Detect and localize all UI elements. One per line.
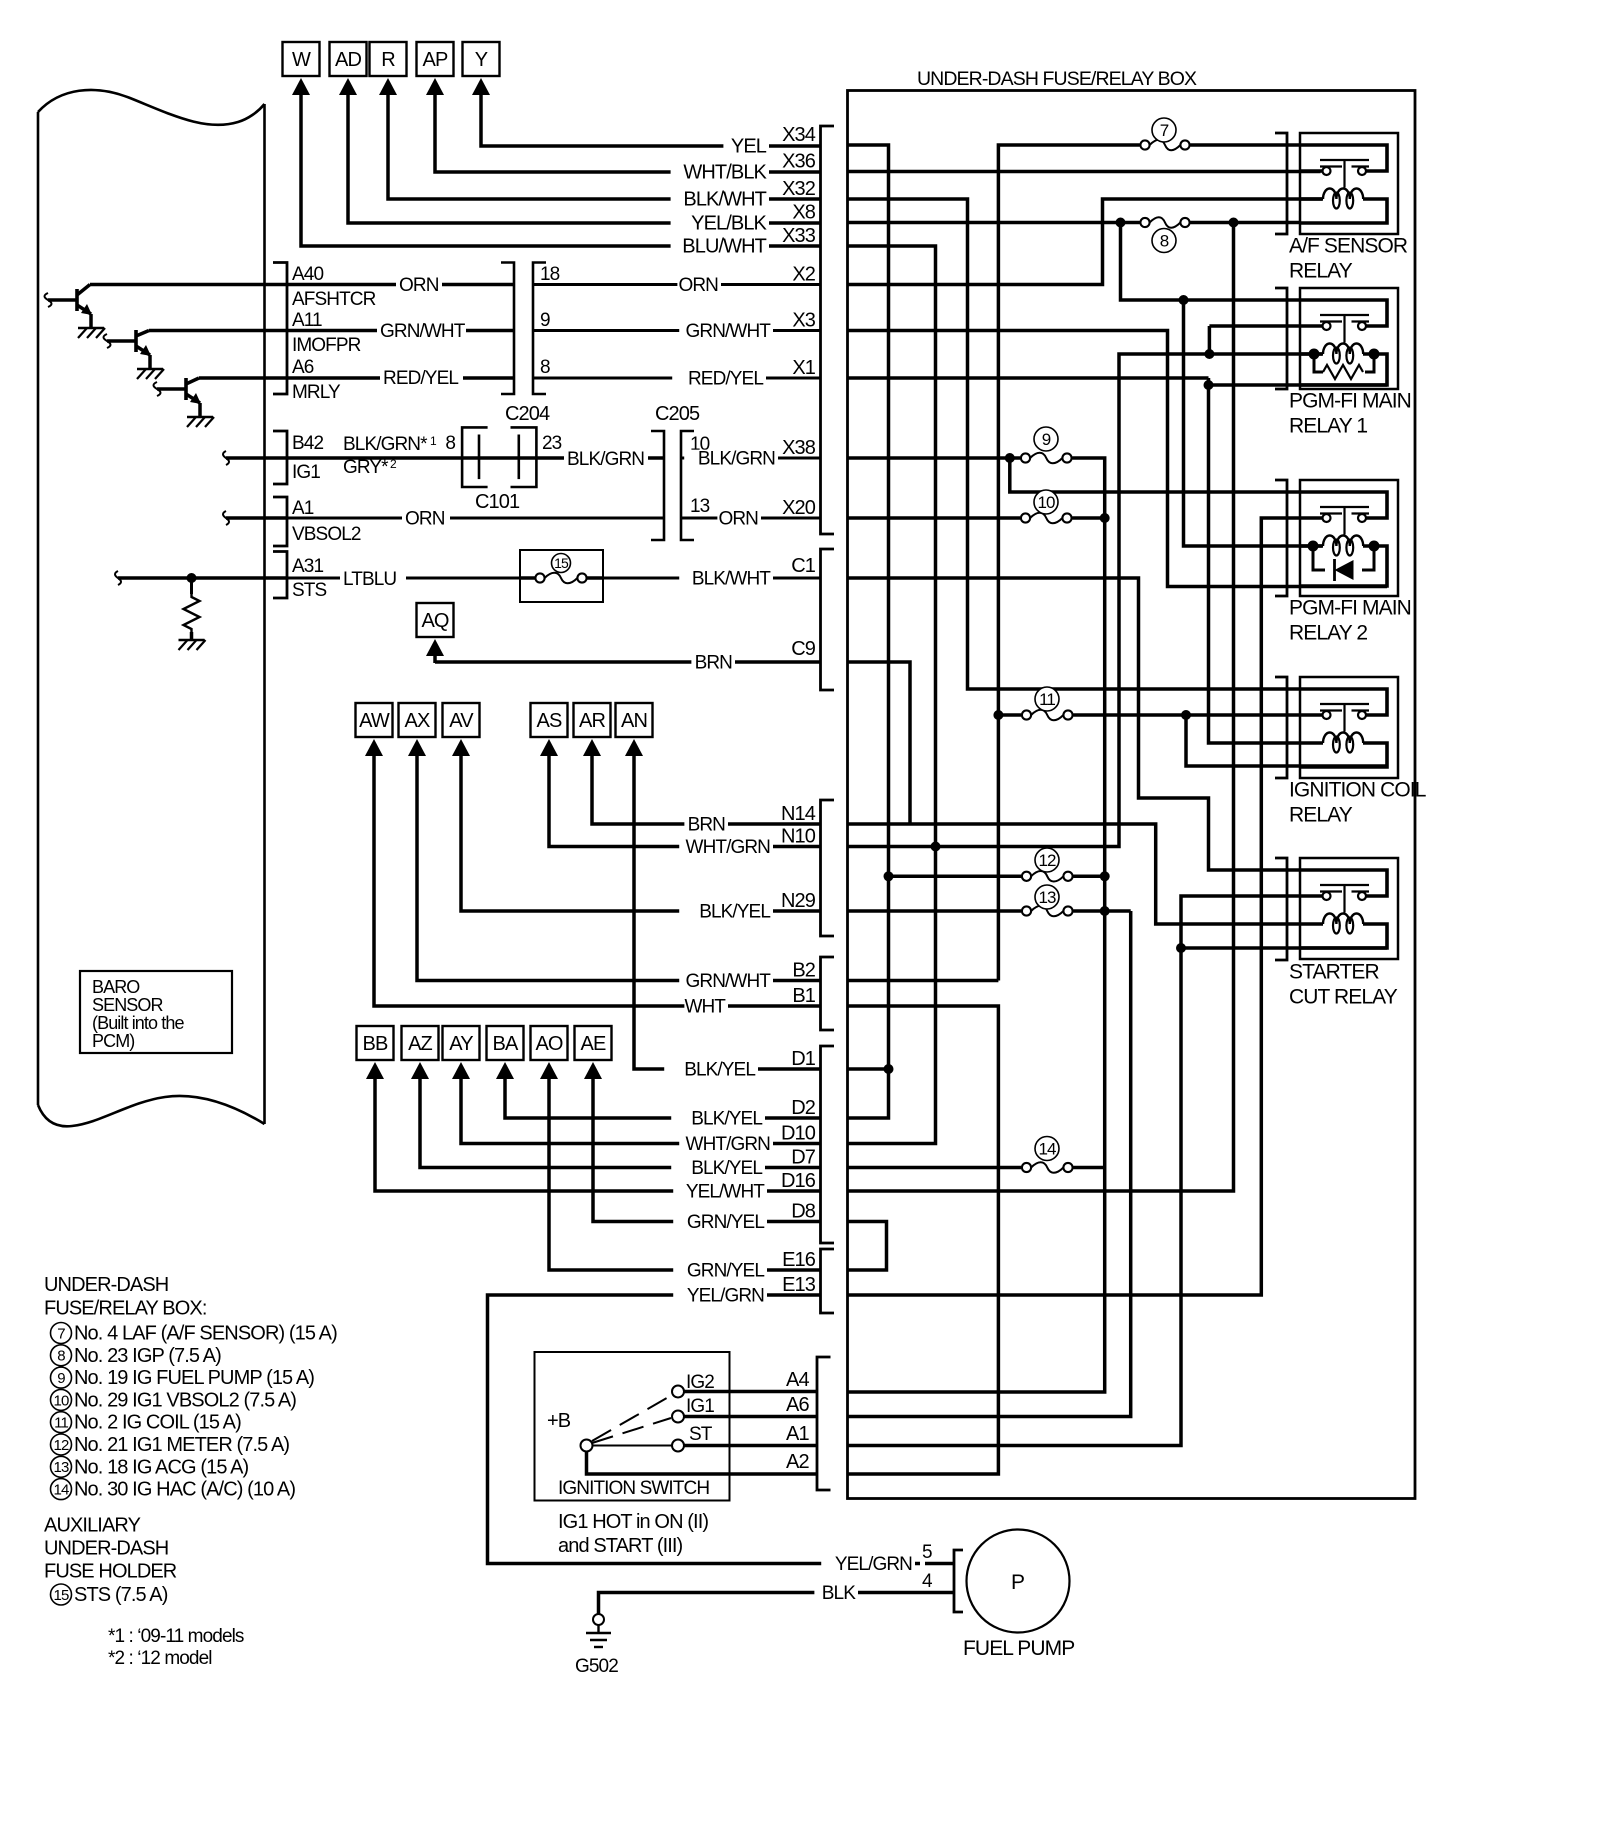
- wire label BLU/WHT: [671, 237, 769, 257]
- wire X2/ORN raised to A/F relay coil: [848, 199, 1323, 285]
- svg-text:D1: D1: [791, 1048, 816, 1070]
- svg-text:ORN: ORN: [399, 275, 439, 296]
- svg-text:D8: D8: [791, 1201, 816, 1223]
- wire RED/YEL A6 label: [380, 369, 463, 388]
- svg-text:BLU/WHT: BLU/WHT: [682, 236, 766, 258]
- wire ORN C205 to X20: [681, 517, 821, 520]
- destination box AY with arrow: [443, 1026, 480, 1060]
- svg-text:VBSOL2: VBSOL2: [292, 524, 361, 545]
- svg-text:N10: N10: [781, 826, 816, 848]
- svg-text:X38: X38: [782, 437, 816, 459]
- svg-text:AX: AX: [405, 710, 430, 732]
- svg-text:ST: ST: [689, 1424, 713, 1445]
- node on X8 wire: [1116, 218, 1126, 228]
- connector C205: [651, 431, 664, 540]
- wire N10 riser to relay1 coil: [848, 354, 1323, 847]
- wire LTBLU A31 to fuse holder: [287, 577, 520, 580]
- wire GRN/WHT A11 label: [377, 322, 466, 341]
- wire starter cut contact/coil from A1: [848, 896, 1301, 1446]
- node X1 relay1 return junction: [1204, 380, 1214, 390]
- node junction on A31 wire: [187, 573, 197, 583]
- legend fuse 12: [51, 1434, 72, 1455]
- svg-text:AR: AR: [579, 710, 605, 732]
- destination box AZ with arrow: [402, 1026, 439, 1060]
- svg-text:AP: AP: [423, 49, 448, 71]
- destination box AW with arrow: [356, 703, 393, 737]
- svg-text:AV: AV: [449, 710, 474, 732]
- svg-text:ORN: ORN: [405, 509, 445, 530]
- svg-text:IG1: IG1: [686, 1396, 714, 1417]
- svg-text:BLK: BLK: [822, 1583, 856, 1604]
- svg-text:C101: C101: [475, 491, 520, 513]
- wire label YEL/BLK: [671, 214, 769, 234]
- svg-text:BLK/YEL: BLK/YEL: [699, 902, 770, 923]
- wire label BLK/YEL at y=1118: [671, 1110, 765, 1129]
- svg-text:No. 18 IG ACG (15 A): No. 18 IG ACG (15 A): [74, 1456, 249, 1478]
- wire into B42: [223, 451, 229, 465]
- wire label BLK/YEL at y=911: [679, 903, 773, 922]
- svg-text:12: 12: [1038, 851, 1056, 870]
- svg-text:X36: X36: [782, 151, 816, 173]
- svg-text:A31: A31: [292, 556, 323, 577]
- connector C101: [462, 427, 488, 487]
- svg-text:BLK/YEL: BLK/YEL: [691, 1158, 762, 1179]
- svg-text:STS: STS: [292, 580, 326, 601]
- destination box AE with arrow: [575, 1026, 612, 1060]
- svg-text:A6: A6: [292, 357, 314, 378]
- svg-text:WHT: WHT: [684, 997, 726, 1018]
- svg-text:X20: X20: [782, 497, 816, 519]
- svg-text:A1: A1: [292, 498, 314, 519]
- under-dash fuse/relay box outline: [848, 91, 1416, 1499]
- node fuse8 right junction: [1229, 218, 1239, 228]
- svg-text:15: 15: [54, 1587, 69, 1604]
- wire D16 to fuse8 junction riser: [848, 223, 1234, 1192]
- wire ORN A1 to C205: [287, 517, 664, 520]
- svg-text:E16: E16: [782, 1249, 816, 1271]
- svg-text:A6: A6: [786, 1394, 809, 1416]
- wire fuse13 out: [1074, 909, 1131, 913]
- svg-text:*2 : ‘12 model: *2 : ‘12 model: [108, 1648, 212, 1669]
- svg-text:E13: E13: [782, 1274, 816, 1296]
- fuse 12 (No.21 IG1 METER): [1022, 872, 1031, 881]
- svg-text:A/F SENSOR: A/F SENSOR: [1289, 235, 1408, 258]
- wire fuse 11 feed: [998, 713, 1021, 717]
- wire from AP riser to pin row y=172: [435, 95, 821, 172]
- ground under resistor: [179, 639, 205, 642]
- PCM connector bracket A40/A11/A6: [273, 263, 287, 395]
- svg-text:N29: N29: [781, 890, 816, 912]
- node relay1 coil-left junction: [1204, 349, 1214, 359]
- wire from Y riser to pin row y=146: [481, 95, 821, 146]
- wire label BLK/YEL at y=1167.5: [671, 1159, 765, 1178]
- svg-text:14: 14: [1038, 1140, 1056, 1159]
- wire label WHT/GRN at y=1143.5: [679, 1135, 773, 1154]
- dashed selector to IG1: [592, 1418, 671, 1443]
- transistor Q3 (MRLY driver): [154, 382, 161, 396]
- contact IG2: [672, 1386, 684, 1398]
- wire X8 fuse8 to A/F coil return: [1191, 221, 1301, 225]
- wire ORN A40 to C204 label: [396, 276, 442, 295]
- wire branch to relay2 coil: [1184, 300, 1323, 546]
- wire label BLK/WHT: [671, 190, 769, 210]
- svg-text:G502: G502: [575, 1656, 618, 1677]
- svg-text:BRN: BRN: [695, 653, 733, 674]
- svg-text:8: 8: [445, 433, 455, 454]
- svg-text:WHT/BLK: WHT/BLK: [683, 162, 767, 184]
- svg-text:IMOFPR: IMOFPR: [292, 335, 361, 356]
- wire D7 to fuse 14: [848, 1166, 1022, 1170]
- node fuse11 output junction: [1181, 710, 1191, 720]
- svg-text:WHT/GRN: WHT/GRN: [686, 1134, 771, 1155]
- svg-text:RELAY: RELAY: [1289, 804, 1353, 827]
- svg-text:+B: +B: [547, 1410, 571, 1432]
- svg-text:BRN: BRN: [688, 815, 726, 836]
- svg-text:GRN/WHT: GRN/WHT: [380, 321, 466, 342]
- node X38 branch: [1005, 453, 1015, 463]
- transistor Q1 (AFSHTCR driver): [45, 293, 52, 307]
- svg-text:B2: B2: [792, 960, 815, 982]
- svg-text:AE: AE: [581, 1033, 606, 1055]
- PCM module outline (torn-edge block): [37, 112, 40, 1105]
- wire from AD riser to pin row y=223: [348, 95, 821, 223]
- wire relay1 contact top from X8: [1121, 223, 1301, 301]
- svg-text:YEL/GRN: YEL/GRN: [687, 1286, 764, 1307]
- wire relay1 return drop to ignition coil relay coil: [1209, 385, 1301, 743]
- relay PGM-FI MAIN RELAY 1: [1300, 288, 1398, 389]
- wire fuse10 out: [1073, 516, 1105, 520]
- svg-text:PGM-FI MAIN: PGM-FI MAIN: [1289, 390, 1411, 413]
- wire label BLK (fuel pump 4): [814, 1584, 858, 1603]
- svg-text:YEL/GRN: YEL/GRN: [835, 1554, 912, 1575]
- wire C9 to N14 junction: [848, 662, 911, 824]
- destination box R with arrow: [370, 42, 407, 76]
- wire ignition coil relay coil return: [1186, 715, 1387, 766]
- svg-text:RED/YEL: RED/YEL: [688, 369, 763, 390]
- node fuse13 out: [1100, 906, 1110, 916]
- wire A6 segment: [287, 376, 514, 380]
- resistor R1 (STS pulldown): [190, 578, 193, 594]
- legend fuse 8: [51, 1345, 72, 1366]
- svg-text:BLK/WHT: BLK/WHT: [692, 569, 771, 590]
- svg-text:STS (7.5 A): STS (7.5 A): [74, 1584, 168, 1606]
- node N10/X33 junction: [931, 842, 941, 852]
- wire B2 stub: [848, 979, 999, 983]
- svg-text:*1 : ‘09-11 models: *1 : ‘09-11 models: [108, 1626, 244, 1647]
- legend fuse 9: [51, 1367, 72, 1388]
- ground G502 symbol: [593, 1614, 604, 1625]
- svg-text:9: 9: [540, 310, 550, 331]
- svg-text:IG1 HOT in ON (II): IG1 HOT in ON (II): [558, 1511, 708, 1533]
- svg-text:12: 12: [54, 1437, 69, 1454]
- wire E13 YEL/GRN outside loop to fuel pump: [488, 1295, 921, 1564]
- svg-text:BA: BA: [493, 1033, 519, 1055]
- transistor Q2 (IMOFPR driver): [104, 334, 111, 348]
- svg-text:X1: X1: [792, 357, 815, 379]
- svg-text:No. 23 IGP (7.5 A): No. 23 IGP (7.5 A): [74, 1345, 221, 1367]
- destination box AV with arrow: [443, 703, 480, 737]
- svg-text:AO: AO: [535, 1033, 562, 1055]
- destination box W with arrow: [283, 42, 320, 76]
- svg-text:B42: B42: [292, 433, 323, 454]
- fuse 7 (No.4 LAF): [1140, 140, 1149, 149]
- svg-text:X33: X33: [782, 225, 816, 247]
- wire X34/YEL vertical drop: [848, 145, 889, 1118]
- wire label WHT at y=1006: [684, 998, 728, 1017]
- wire IG2 to A4: [684, 1390, 817, 1394]
- svg-text:No. 30 IG HAC (A/C) (10 A): No. 30 IG HAC (A/C) (10 A): [74, 1479, 295, 1501]
- wire riser AV to N29: [461, 756, 821, 911]
- fuse box connector bracket B2-B1: [821, 957, 835, 1030]
- wire IG1-VBSOL2 vertical: [848, 518, 1105, 1392]
- svg-text:AN: AN: [621, 710, 647, 732]
- wire BLK/GRN C205 to X38: [681, 457, 821, 460]
- wire GRN/WHT C204 to X3: [533, 329, 821, 332]
- svg-text:UNDER-DASH: UNDER-DASH: [44, 1274, 168, 1296]
- svg-text:R: R: [381, 49, 395, 71]
- fuel pump bracket: [954, 1550, 963, 1612]
- svg-text:UNDER-DASH: UNDER-DASH: [44, 1538, 168, 1560]
- svg-text:13: 13: [690, 496, 710, 517]
- wire N14 to starter cut coil: [848, 824, 1301, 924]
- contact ST: [672, 1440, 684, 1452]
- wire riser AN to D1: [634, 756, 821, 1069]
- svg-text:No. 19 IG FUEL PUMP (15 A): No. 19 IG FUEL PUMP (15 A): [74, 1367, 314, 1389]
- node D1 junction: [884, 1064, 894, 1074]
- svg-text:AUXILIARY: AUXILIARY: [44, 1515, 141, 1537]
- svg-text:A40: A40: [292, 264, 323, 285]
- wire A40-ORN segment: [287, 283, 514, 287]
- svg-text:GRN/YEL: GRN/YEL: [687, 1261, 764, 1282]
- destination box AS with arrow: [531, 703, 568, 737]
- svg-text:GRN/YEL: GRN/YEL: [687, 1212, 764, 1233]
- wire X20 to fuse 10: [848, 516, 1021, 520]
- svg-text:BLK/GRN: BLK/GRN: [698, 449, 775, 470]
- legend fuse 10: [51, 1389, 72, 1410]
- wire fuse9 out to X20 junction: [1073, 458, 1105, 518]
- svg-text:RELAY 1: RELAY 1: [1289, 415, 1367, 438]
- svg-text:4: 4: [922, 1571, 933, 1592]
- svg-text:FUSE/RELAY BOX:: FUSE/RELAY BOX:: [44, 1298, 207, 1320]
- wire riser AY to D10: [461, 1079, 821, 1144]
- fuse box connector bracket N14-N29: [821, 800, 835, 936]
- wire riser AS to N10: [549, 756, 821, 847]
- destination box AN with arrow: [616, 703, 653, 737]
- svg-text:AY: AY: [449, 1033, 473, 1055]
- wire fuse14 out to A4 line: [1074, 1166, 1105, 1170]
- svg-text:No. 2 IG COIL (15 A): No. 2 IG COIL (15 A): [74, 1412, 241, 1434]
- wire riser AR to N14: [592, 756, 821, 824]
- svg-text:5: 5: [922, 1542, 932, 1563]
- wire from R riser to pin row y=199: [388, 95, 821, 199]
- svg-text:D2: D2: [791, 1097, 816, 1119]
- destination box Y with arrow: [463, 42, 500, 76]
- svg-text:13: 13: [1038, 888, 1056, 907]
- fuse 13 (No.18 IG ACG): [1022, 906, 1031, 915]
- fuel pump motor circle: [967, 1530, 1070, 1633]
- relay IGNITION COIL RELAY: [1300, 677, 1398, 778]
- wire label GRN/YEL at y=1270: [673, 1262, 767, 1281]
- wire X1 corner to relay1 coil return: [1209, 378, 1388, 385]
- svg-text:23: 23: [542, 433, 562, 454]
- svg-text:STARTER: STARTER: [1289, 961, 1380, 984]
- connector C204: [501, 263, 514, 395]
- wire ORN C204 to X2: [533, 283, 821, 286]
- fuse 11 (No.2 IG COIL): [1022, 710, 1031, 719]
- wire label BRN at y=824: [684, 816, 728, 835]
- wire label YEL/GRN at y=1295: [673, 1287, 767, 1306]
- svg-text:PGM-FI MAIN: PGM-FI MAIN: [1289, 597, 1411, 620]
- wire X38 to fuse 9: [848, 456, 1021, 460]
- svg-text:18: 18: [540, 264, 560, 285]
- wire X8 to fuse 8: [848, 221, 1140, 225]
- wire label YEL: [723, 137, 769, 157]
- legend fuse 14: [51, 1479, 72, 1500]
- svg-text:X8: X8: [792, 202, 815, 224]
- ground G502 riser and BLK wire: [599, 1593, 955, 1618]
- wire X33 drop to N10/D10: [848, 246, 936, 1144]
- destination box BA with arrow: [487, 1026, 524, 1060]
- PCM bracket A31/STS: [273, 552, 287, 599]
- svg-text:YEL: YEL: [731, 136, 767, 158]
- svg-text:Y: Y: [475, 49, 488, 71]
- svg-text:No. 4 LAF (A/F SENSOR) (15 A): No. 4 LAF (A/F SENSOR) (15 A): [74, 1323, 337, 1345]
- svg-text:AW: AW: [359, 710, 390, 732]
- svg-text:8: 8: [540, 357, 550, 378]
- wire label WHT/GRN at y=846.5: [679, 838, 773, 857]
- svg-text:C9: C9: [791, 638, 816, 660]
- wire riser BB to D16: [375, 1079, 821, 1191]
- svg-text:ORN: ORN: [718, 509, 758, 530]
- destination box BB with arrow: [357, 1026, 394, 1060]
- svg-text:No. 29 IG1 VBSOL2 (7.5 A): No. 29 IG1 VBSOL2 (7.5 A): [74, 1389, 296, 1411]
- svg-text:15: 15: [554, 555, 569, 571]
- svg-text:10: 10: [1037, 493, 1055, 512]
- wire label WHT/BLK: [671, 163, 769, 183]
- wire X1 to PGM-FI relay1: [848, 376, 1209, 380]
- wire riser BA to D2: [505, 1079, 821, 1118]
- fuse 15 symbol: [552, 554, 571, 573]
- legend fuse 13: [51, 1456, 72, 1477]
- fuse 8 (No.23 IGP): [1140, 218, 1149, 227]
- destination box AO with arrow: [531, 1026, 568, 1060]
- wire BRN from AQ to C9: [435, 660, 821, 664]
- svg-text:ORN: ORN: [678, 275, 718, 296]
- wire riser AO to E16: [549, 1079, 821, 1270]
- wire X3 to PGM-FI relay2 coil return: [848, 331, 1388, 587]
- svg-text:X2: X2: [792, 264, 815, 286]
- wire label GRN/YEL at y=1221.5: [673, 1213, 767, 1232]
- svg-text:8: 8: [1160, 232, 1169, 251]
- svg-text:10: 10: [54, 1392, 69, 1409]
- wire fuse7 to A/F relay contact top: [1191, 143, 1301, 147]
- svg-text:(Built into the: (Built into the: [92, 1013, 184, 1033]
- node fuse12 feed: [884, 871, 894, 881]
- svg-text:RED/YEL: RED/YEL: [383, 368, 458, 389]
- fuse box connector bracket D1-D8: [821, 1046, 835, 1243]
- wire B42 to C101: [287, 456, 664, 460]
- svg-text:W: W: [292, 49, 311, 71]
- svg-text:RELAY 2: RELAY 2: [1289, 622, 1367, 645]
- svg-text:AFSHTCR: AFSHTCR: [292, 289, 376, 310]
- svg-text:YEL/WHT: YEL/WHT: [686, 1182, 765, 1203]
- ignition switch pole: [581, 1440, 593, 1452]
- wire X38 branch to relay2 contact top: [1010, 458, 1300, 492]
- contact IG1: [672, 1411, 684, 1423]
- PCM bracket B42/IG1: [273, 431, 287, 484]
- wire C1 to starter cut route: [848, 578, 1301, 870]
- wire fuse11 to ignition coil relay contact: [1074, 713, 1301, 717]
- svg-text:BLK/YEL: BLK/YEL: [684, 1060, 755, 1081]
- svg-text:IGNITION COIL: IGNITION COIL: [1289, 779, 1426, 802]
- svg-text:BLK/YEL: BLK/YEL: [691, 1109, 762, 1130]
- svg-text:13: 13: [54, 1459, 69, 1476]
- fuse box connector bracket A4-A2: [817, 1357, 831, 1490]
- wire N29 to fuse 13: [848, 909, 1022, 913]
- svg-text:WHT/GRN: WHT/GRN: [686, 837, 771, 858]
- relay A/F SENSOR RELAY: [1300, 133, 1398, 234]
- svg-text:14: 14: [54, 1482, 69, 1499]
- svg-text:B1: B1: [792, 985, 815, 1007]
- wire fuse 12 feed from X34 line: [889, 875, 1022, 879]
- node fuse12 out: [1100, 871, 1110, 881]
- node relay1 top branch: [1179, 295, 1189, 305]
- svg-text:GRN/WHT: GRN/WHT: [686, 971, 772, 992]
- wire RED/YEL C204 to X1: [533, 377, 821, 380]
- svg-text:GRN/WHT: GRN/WHT: [686, 321, 772, 342]
- fuse 9 (No.19 IG FUEL PUMP): [1021, 453, 1030, 462]
- svg-text:AS: AS: [537, 710, 562, 732]
- svg-text:and START (III): and START (III): [558, 1535, 683, 1557]
- svg-text:BLK/WHT: BLK/WHT: [683, 189, 766, 211]
- svg-text:D16: D16: [781, 1170, 816, 1192]
- svg-text:X32: X32: [782, 178, 816, 200]
- destination box AR with arrow: [574, 703, 611, 737]
- wire riser AE to D8: [593, 1079, 821, 1222]
- pole to A2 wire: [587, 1452, 818, 1475]
- svg-text:FUEL PUMP: FUEL PUMP: [963, 1637, 1074, 1660]
- svg-text:X3: X3: [792, 310, 815, 332]
- svg-text:IG1: IG1: [292, 462, 320, 483]
- svg-text:X34: X34: [782, 124, 816, 146]
- wire B1 to A2: [848, 1006, 999, 1474]
- wire label YEL/GRN (fuel pump 5): [821, 1555, 915, 1574]
- destination box AP with arrow: [417, 42, 454, 76]
- destination box AX with arrow: [399, 703, 436, 737]
- svg-text:7: 7: [1160, 121, 1169, 140]
- wire X32 drop to ignition coil relay: [848, 199, 1301, 689]
- wire YEL/GRN stub to pump: [925, 1562, 954, 1566]
- svg-text:IGNITION SWITCH: IGNITION SWITCH: [558, 1478, 709, 1499]
- wire D8-E16 loop: [848, 1222, 887, 1271]
- svg-text:BB: BB: [363, 1033, 388, 1055]
- wire D1 stub: [848, 1067, 889, 1071]
- svg-text:A2: A2: [786, 1451, 809, 1473]
- svg-text:YEL/BLK: YEL/BLK: [691, 213, 767, 235]
- svg-text:N14: N14: [781, 803, 816, 825]
- fuse box connector bracket E16-E13: [821, 1249, 835, 1313]
- svg-text:8: 8: [57, 1348, 65, 1365]
- svg-text:PCM): PCM): [92, 1031, 134, 1051]
- svg-text:C1: C1: [791, 555, 816, 577]
- svg-text:C205: C205: [655, 403, 700, 425]
- wire A11 segment: [287, 329, 514, 333]
- wire riser AZ to D7: [420, 1079, 821, 1168]
- svg-text:AD: AD: [335, 49, 361, 71]
- svg-text:UNDER-DASH FUSE/RELAY BOX: UNDER-DASH FUSE/RELAY BOX: [917, 68, 1197, 90]
- svg-text:A1: A1: [786, 1423, 809, 1445]
- svg-text:9: 9: [1042, 430, 1051, 449]
